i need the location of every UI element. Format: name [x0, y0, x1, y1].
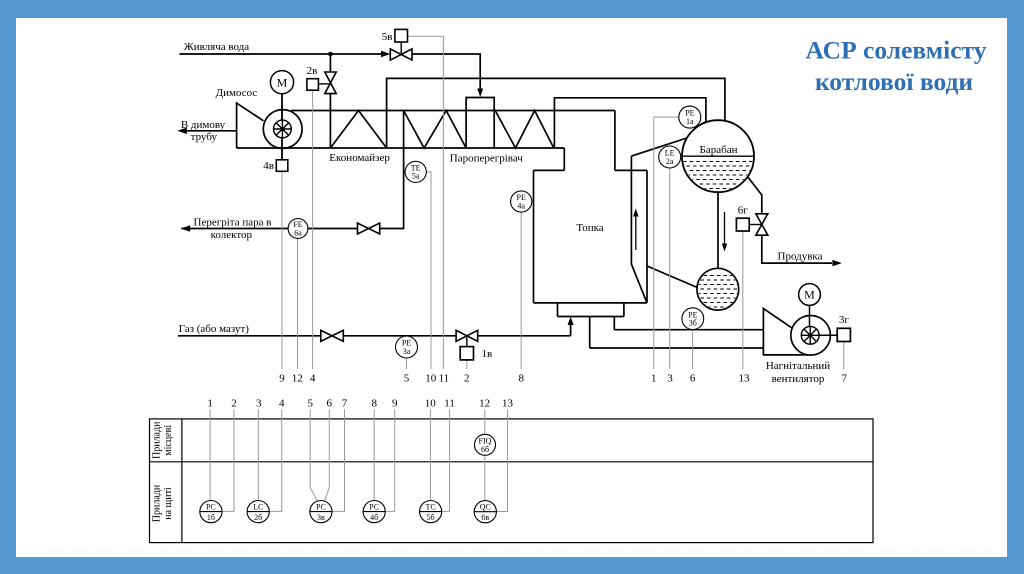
svg-text:10: 10: [425, 398, 437, 410]
svg-text:РС: РС: [316, 503, 326, 512]
shaft blower fan horizontal to 3г: [819, 334, 837, 336]
wire column 12 to FIQ 6б and QC 6в: [484, 410, 486, 501]
svg-text:Перегріта пара в: Перегріта пара в: [194, 217, 272, 229]
shaft smoke exhauster: [281, 94, 283, 160]
blower fan scroll circle: [791, 316, 831, 356]
signal wire from PE 4a to column 8: [520, 212, 522, 369]
air duct from fan to burner: [590, 317, 764, 349]
actuator square 3г: [837, 328, 850, 341]
wire column 9 to PC 4б: [385, 410, 394, 512]
signal wire from FE 6a to column 12: [297, 238, 299, 369]
svg-text:Димосос: Димосос: [216, 87, 258, 99]
svg-text:місцеві: місцеві: [163, 425, 174, 456]
attemperator box on duct: [466, 98, 494, 149]
wire column 11 to TC 5б: [442, 410, 450, 512]
instrument bubble QC 6в: [474, 501, 496, 523]
svg-text:2: 2: [464, 373, 470, 385]
svg-text:8: 8: [371, 398, 377, 410]
riser channel left wall and slant: [631, 156, 647, 303]
wire superheated steam outlet down and left: [380, 111, 404, 229]
downcomer flow arrow: [724, 212, 726, 246]
svg-text:4б: 4б: [370, 513, 378, 522]
superheater coil zigzag section 2: [495, 111, 554, 149]
svg-text:12: 12: [479, 398, 490, 410]
wire furnace wall to expander slant: [647, 266, 697, 288]
svg-text:9: 9: [392, 398, 398, 410]
svg-text:6в: 6в: [481, 513, 489, 522]
svg-text:1а: 1а: [686, 117, 694, 126]
svg-text:Газ (або мазут): Газ (або мазут): [179, 323, 250, 335]
svg-text:3г: 3г: [839, 314, 850, 326]
blower fan housing: [763, 309, 808, 355]
svg-text:М: М: [277, 76, 288, 90]
svg-text:1: 1: [207, 398, 213, 410]
wire steam line through valve to FE: [308, 228, 358, 230]
signal wire from actuator 4в to column 9: [281, 171, 283, 369]
signal wire from actuator 3г to column 7: [843, 342, 845, 369]
wire column 2 to PC 1б: [222, 410, 234, 512]
svg-text:В димову: В димову: [181, 119, 226, 131]
svg-text:Барабан: Барабан: [700, 144, 738, 156]
svg-text:РС: РС: [206, 503, 216, 512]
valve 6г stem: [749, 224, 762, 226]
svg-text:Пароперегрівач: Пароперегрівач: [450, 152, 524, 164]
svg-text:ТС: ТС: [425, 503, 435, 512]
signal wire from TE 5a to column 10: [426, 172, 431, 369]
economizer coil zigzag: [330, 111, 386, 149]
valve 5в stem: [400, 42, 402, 55]
instrument bubble FE 6a: [288, 219, 308, 239]
instrument bubble FIQ 6б: [475, 434, 496, 455]
svg-text:6а: 6а: [294, 228, 302, 237]
superheater coil zigzag section 1: [404, 111, 467, 149]
svg-text:Топка: Топка: [576, 222, 603, 234]
smoke exhauster scroll circle: [263, 110, 302, 149]
svg-text:М: М: [804, 288, 815, 302]
svg-text:4а: 4а: [517, 201, 525, 210]
svg-text:5: 5: [404, 373, 410, 385]
flow arrow to stack: [177, 128, 187, 134]
svg-text:10: 10: [425, 373, 437, 385]
svg-text:1: 1: [651, 373, 657, 385]
signal wire from LE 2a to column 3: [669, 168, 671, 369]
wire smoke exit to stack: [182, 130, 237, 132]
junction node on feed line: [328, 52, 333, 57]
instrument bubble PC 4б: [363, 501, 385, 523]
wire column 7 to PC 3в: [332, 410, 345, 512]
wire column 8 to PC 4б: [373, 410, 375, 501]
svg-text:9: 9: [279, 373, 285, 385]
svg-text:на щиті: на щиті: [163, 487, 174, 520]
signal wire from actuator 2в to column 4: [312, 90, 314, 369]
wire column 13 to QC 6в: [496, 410, 507, 512]
svg-text:2б: 2б: [254, 513, 262, 522]
valve 1в stem: [466, 336, 468, 347]
svg-text:Економайзер: Економайзер: [329, 152, 390, 164]
flow arrow gas into burner: [568, 317, 574, 325]
actuator square 4в: [276, 160, 288, 172]
flow arrow into attemperator: [477, 89, 483, 98]
svg-text:6б: 6б: [481, 445, 489, 454]
table signal wires: [210, 410, 507, 512]
svg-text:LC: LC: [253, 503, 263, 512]
signal wire from actuator 1в to column 2: [466, 360, 468, 369]
wire feed-water after valve 5в to attemperator drop: [412, 54, 480, 93]
blower fan impeller: [801, 326, 819, 344]
wire flue duct top line: [291, 110, 615, 112]
drum water level line: [682, 155, 754, 157]
svg-text:QC: QC: [480, 503, 491, 512]
wire gas line: [178, 322, 571, 336]
svg-text:8: 8: [518, 373, 524, 385]
motor M of smoke exhauster: [270, 71, 293, 94]
svg-text:5: 5: [307, 398, 313, 410]
instrument bubble LE 2a: [659, 146, 681, 168]
instrument bubble PE 3б: [682, 308, 704, 330]
svg-text:колектор: колектор: [211, 229, 253, 241]
drum Барабан: [682, 120, 754, 192]
valve 2в stem: [318, 83, 330, 85]
svg-text:Нагнітальний: Нагнітальний: [766, 360, 830, 372]
table frame: [150, 419, 874, 543]
valve 1в body: [456, 330, 478, 341]
svg-text:13: 13: [502, 398, 514, 410]
wire column 6 to PC 3в: [325, 410, 330, 502]
signal wire from actuator 6г to column 13: [742, 231, 744, 369]
signal wire from PE 3б to column 6: [692, 330, 694, 369]
svg-text:2: 2: [231, 398, 237, 410]
svg-text:7: 7: [342, 398, 348, 410]
svg-text:Живляча вода: Живляча вода: [184, 41, 249, 53]
instrument bubble PC 3в: [310, 501, 332, 523]
valve on steam line: [358, 223, 380, 234]
instrument bubble PC 1б: [200, 501, 222, 523]
svg-text:Прилади: Прилади: [152, 484, 163, 522]
svg-text:5а: 5а: [412, 172, 420, 181]
expander water hatching: [697, 276, 739, 308]
svg-text:вентилятор: вентилятор: [772, 373, 825, 385]
wire feed-water main line: [179, 53, 381, 55]
svg-text:Продувка: Продувка: [778, 251, 823, 263]
wire column 1 to PC 1б: [209, 410, 211, 501]
svg-text:6: 6: [327, 398, 333, 410]
svg-text:4: 4: [310, 373, 316, 385]
svg-text:3в: 3в: [317, 513, 325, 522]
expander drum (lower drum): [697, 268, 739, 310]
wire economizer outlet to drum: [387, 78, 725, 148]
wire downcomer drum to expander: [717, 192, 719, 268]
signal wire from PE 1a to column 1: [654, 117, 679, 369]
svg-text:13: 13: [739, 373, 751, 385]
wire column 10 to TC 5б: [429, 410, 431, 501]
wire duct-to-furnace step verticals: [564, 111, 615, 171]
motor M of blower fan: [799, 284, 821, 306]
shaft blower fan vertical: [809, 305, 811, 335]
smoke exhauster impeller: [274, 120, 292, 138]
svg-text:6: 6: [690, 373, 696, 385]
svg-text:АСР солевмісту: АСР солевмісту: [806, 36, 987, 65]
svg-text:3а: 3а: [403, 347, 411, 356]
svg-text:12: 12: [292, 373, 303, 385]
valve 5в body: [390, 49, 412, 60]
flow arrow feed water: [381, 51, 390, 57]
actuator square 5в: [395, 29, 408, 42]
svg-text:6г: 6г: [738, 205, 749, 217]
svg-text:трубу: трубу: [191, 131, 218, 143]
wire blowdown drum to valve 6г: [747, 176, 762, 214]
furnace Топка box: [534, 170, 648, 303]
signal wire from actuator 5в to column 11: [408, 36, 444, 369]
svg-text:2а: 2а: [666, 157, 674, 166]
wire steam line FE to collector arrow: [182, 228, 289, 230]
burner pedestal under furnace: [558, 303, 624, 317]
instrument bubble PE 4a: [511, 191, 532, 212]
actuator square 1в: [460, 347, 473, 360]
flow arrow Продувка: [832, 260, 842, 266]
signal wire from PE 3a to column 5: [406, 358, 408, 369]
svg-text:3: 3: [256, 398, 262, 410]
actuator square 2в: [307, 79, 319, 91]
gas hand valve: [321, 330, 344, 341]
svg-text:1в: 1в: [482, 348, 493, 360]
riser to drum slant: [631, 138, 686, 156]
svg-text:1б: 1б: [207, 513, 215, 522]
wire column 4 to LC 2б: [269, 410, 281, 512]
wire flue duct bottom line: [237, 147, 565, 149]
svg-text:5б: 5б: [427, 513, 435, 522]
instrument bubble LC 2б: [247, 501, 269, 523]
actuator square 6г: [736, 218, 749, 231]
svg-text:2в: 2в: [307, 65, 318, 77]
smoke exhauster housing: [237, 103, 264, 148]
flow arrow steam to collector: [181, 225, 191, 231]
wire column 5 to PC 3в: [310, 410, 317, 502]
svg-text:РС: РС: [369, 503, 379, 512]
svg-text:11: 11: [444, 398, 455, 410]
table column numbers: [207, 398, 513, 410]
instrument bubble PE 3a: [396, 336, 418, 358]
instrument bubble PE 1a: [679, 106, 701, 128]
wire blowdown valve to Продувка arrow: [762, 235, 832, 263]
wire column 3 to LC 2б: [257, 410, 259, 501]
instrument bubble TE 5a: [405, 161, 426, 182]
svg-text:7: 7: [842, 373, 848, 385]
svg-text:котлової води: котлової води: [815, 67, 973, 96]
instrument bubble TC 5б: [420, 501, 442, 523]
svg-text:Прилади: Прилади: [152, 421, 163, 459]
wire feed branch down through valve 2в to economizer inlet: [329, 54, 331, 148]
svg-text:4в: 4в: [263, 160, 274, 172]
wire saturated steam line duct to drum top: [554, 98, 706, 148]
svg-text:5в: 5в: [382, 31, 393, 43]
svg-text:3: 3: [667, 373, 673, 385]
svg-text:4: 4: [279, 398, 285, 410]
svg-text:3б: 3б: [689, 319, 697, 328]
drum water hatching: [683, 162, 754, 189]
valve 2в body (vertical): [325, 72, 336, 94]
valve 6г body (vertical): [756, 214, 768, 235]
riser flow arrow up: [635, 214, 637, 250]
svg-text:11: 11: [439, 373, 450, 385]
decorative dotted line: [30, 549, 992, 551]
